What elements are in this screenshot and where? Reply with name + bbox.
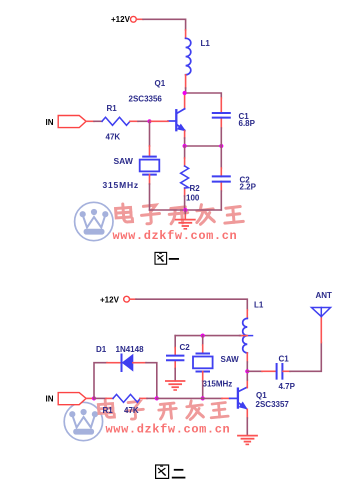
wire left junction to R1 [94,397,106,399]
CIRCUIT1 [46,15,257,229]
resistor R2 body [181,166,189,188]
watermark chinese text row2 [98,400,228,420]
svg-text:315MHz: 315MHz [103,180,139,190]
diode D1 [122,355,133,372]
node ground rail junction [183,208,187,212]
resistor R2 leads [184,146,186,158]
ground symbol circuit1 [176,210,195,229]
svg-text:2SC3357: 2SC3357 [256,400,290,409]
wire Q1 emitter to ground [246,409,248,418]
wire Q1 collector to node [246,380,248,388]
node emitter junction [183,144,187,148]
IN port connector circuit1 [58,116,86,128]
svg-text:Q1: Q1 [256,391,267,400]
wire collector node down to Q1 collector [184,95,186,109]
wire base junction to Q1 base [150,120,169,122]
diode D1 branch right riser [133,362,146,364]
capacitor C1 circuit2 plates [277,364,283,379]
wire SAW bottom to base junction [202,372,204,382]
wire SAW junction to Q1 base [203,397,222,399]
wire IN port to R1 [86,120,94,122]
capacitor C2 branch wires [220,146,222,168]
svg-text:315MHz: 315MHz [203,380,233,389]
svg-text:6.8P: 6.8P [239,119,256,128]
svg-text:2SC3356: 2SC3356 [129,95,163,104]
+12V terminal circle circuit1 [131,16,137,22]
wire SAW top lead [202,336,204,345]
svg-text:R2: R2 [190,184,201,193]
svg-text:D1: D1 [96,345,107,354]
watermark logo circuit1 [75,202,113,240]
wire SAW bottom to ground rail [149,175,151,184]
figure1 caption 图一 [155,252,179,264]
node C1-C2 junction [219,144,223,148]
svg-text:2.2P: 2.2P [240,183,257,192]
svg-text:IN: IN [46,395,54,404]
capacitor C1 leads [220,98,222,113]
wire R1 to right junction [140,397,147,399]
svg-text:4.7P: 4.7P [279,382,296,391]
svg-text:R1: R1 [107,104,118,113]
node D1 left junction [92,396,96,400]
wire L1 bottom to collector node [185,75,187,88]
wire C1 to antenna corner [283,370,290,372]
node SAW bottom junction [201,396,205,400]
ground symbol under C2 [166,381,185,390]
capacitor C1 plates [213,113,230,118]
svg-text:IN: IN [46,118,54,127]
+12V terminal circle circuit2 [124,296,130,302]
wire into L1 top [185,30,187,38]
svg-text:L1: L1 [201,39,211,48]
tap rail wire C2 to L1 [240,335,247,337]
wire node to C1 [247,370,262,372]
svg-text:www.dzkfw.com.cn: www.dzkfw.com.cn [113,229,238,243]
node SAW top junction [201,334,205,338]
wire +12V to L1 top corner [130,298,136,300]
svg-text:Q1: Q1 [155,79,166,88]
SAW resonator circuit1 [140,157,160,175]
capacitor C2 plates circuit2 [167,356,183,361]
ground rail circuit1 [150,209,222,211]
svg-text:R1: R1 [103,406,114,415]
diode D1 branch left riser [94,363,107,399]
svg-text:www.dzkfw.com.cn: www.dzkfw.com.cn [106,423,231,437]
transistor Q1 circuit1 [168,109,185,131]
svg-text:SAW: SAW [114,156,134,166]
resistor R1 body circuit2 [113,394,140,402]
node D1 right junction [155,396,159,400]
figure2 caption 图二 [156,465,186,478]
antenna ANT symbol [312,308,331,317]
CIRCUIT2 [46,291,333,444]
svg-text:C1: C1 [279,355,290,364]
SAW resonator circuit2 [193,354,213,372]
wire Q1 emitter to emitter node [184,131,186,138]
svg-text:47K: 47K [124,406,139,415]
inductor L1 [186,38,191,74]
wire R1 to base junction [130,120,138,122]
watermark logo circuit2 [64,402,102,440]
svg-text:L1: L1 [254,301,264,310]
svg-text:+12V: +12V [100,296,120,305]
capacitor C2 plates [213,176,230,181]
svg-text:1N4148: 1N4148 [116,345,145,354]
svg-text:100: 100 [186,194,200,203]
svg-text:+12V: +12V [111,15,131,24]
svg-text:ANT: ANT [316,291,333,300]
node collector junction circuit2 [245,369,249,373]
watermark chinese text row1 [115,203,243,224]
wire base junction down to SAW [149,121,151,146]
ground symbol under Q1 emitter [238,436,257,445]
wire right junction to SAW junction [157,397,203,399]
node base junction [147,119,151,123]
svg-text:C2: C2 [180,343,191,352]
wire IN port to left junction [86,397,94,399]
IN port connector circuit2 [58,393,86,405]
wire +12V to top corner [137,18,143,20]
resistor R1 body [102,117,130,125]
svg-text:47K: 47K [106,133,121,142]
inductor L1 circuit2 [243,318,248,352]
capacitor C2 branch circuit2 [174,336,176,348]
L1 tap tick [240,335,253,337]
node collector junction [183,91,187,95]
svg-text:SAW: SAW [221,355,240,364]
wire L1 bottom to node [246,353,248,362]
transistor Q1 circuit2 [230,388,247,409]
